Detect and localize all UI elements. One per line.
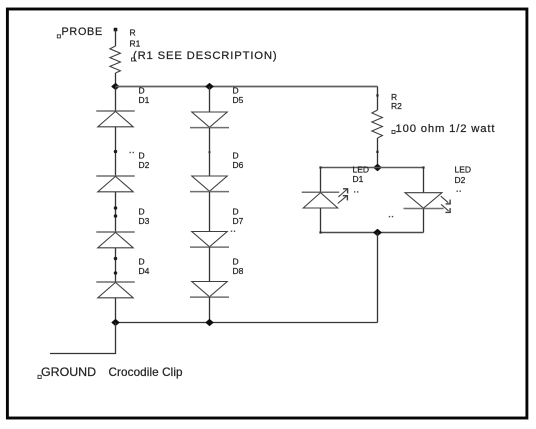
svg-text:D: D — [233, 207, 239, 217]
label R1 see description — [132, 50, 278, 62]
wire rail corner down to R2 — [376, 87, 378, 111]
wire LED bridge to bottom rail — [377, 233, 379, 323]
svg-text:Crocodile Clip: Crocodile Clip — [109, 366, 184, 379]
wire left branch down — [320, 168, 322, 193]
diode D8 — [190, 257, 244, 298]
wire D1 to D2 — [114, 127, 118, 176]
node LED top junction — [374, 164, 381, 170]
LED D2 — [389, 165, 471, 218]
node PROBE — [57, 26, 117, 38]
svg-text:D1: D1 — [139, 95, 150, 105]
wire right branch down — [423, 168, 425, 193]
svg-text:D: D — [139, 257, 145, 267]
wire R1 to node A — [115, 73, 117, 87]
node GROUND label — [38, 365, 183, 379]
wire LED top rail — [319, 166, 424, 168]
svg-text:(R1 SEE DESCRIPTION): (R1 SEE DESCRIPTION) — [133, 50, 277, 62]
node B junction — [206, 84, 213, 90]
diode D5 — [190, 86, 244, 128]
wire bottom rail — [116, 322, 378, 324]
wire ground lead — [50, 323, 116, 354]
wire LED D2 down — [423, 209, 425, 233]
svg-text:LED: LED — [353, 165, 370, 175]
node A junction — [112, 84, 119, 90]
svg-text:D4: D4 — [139, 266, 150, 276]
diode D3 — [96, 207, 149, 248]
wire left chain top — [115, 87, 117, 112]
svg-text:100 ohm 1/2 watt: 100 ohm 1/2 watt — [396, 123, 496, 135]
svg-text:D: D — [233, 257, 239, 267]
wire R2 to LED rail — [376, 138, 378, 168]
svg-text:D2: D2 — [139, 160, 150, 170]
svg-text:D7: D7 — [233, 216, 244, 226]
svg-text:D: D — [233, 151, 239, 161]
wire D8 to bottom rail — [209, 297, 211, 322]
wire D5 to D6 — [209, 128, 211, 176]
wire D6 to D7 — [209, 192, 211, 232]
svg-text:D: D — [139, 86, 145, 96]
svg-text:D1: D1 — [353, 174, 364, 184]
svg-text:D3: D3 — [139, 216, 150, 226]
svg-text:R: R — [130, 28, 136, 38]
node bottom left junction — [112, 320, 119, 326]
wire probe to R1 — [115, 30, 117, 46]
diode D4 — [96, 257, 149, 298]
label 100 ohm 1/2 watt — [392, 123, 495, 135]
LED D1 — [302, 165, 369, 209]
diode D7 — [190, 207, 244, 248]
node bottom mid junction — [206, 320, 213, 326]
svg-text:D: D — [139, 151, 145, 161]
diode D1 — [96, 86, 149, 127]
wire top rail — [116, 86, 378, 88]
wire D3 to D4 — [114, 248, 118, 282]
node LED bottom junction — [374, 229, 381, 235]
svg-text:D8: D8 — [233, 266, 244, 276]
wire D2 to D3 — [114, 192, 118, 232]
svg-text:GROUND: GROUND — [41, 365, 96, 379]
wire LED D1 down — [320, 208, 322, 233]
svg-text:LED: LED — [455, 165, 472, 175]
wire right chain top — [209, 87, 211, 113]
svg-text:D5: D5 — [233, 95, 244, 105]
resistor R2 — [372, 92, 402, 138]
wire D7 to D8 — [209, 247, 211, 281]
wire LED bottom rail — [319, 231, 423, 233]
wire D4 to bottom rail — [115, 298, 117, 323]
svg-text:R2: R2 — [391, 101, 402, 111]
svg-text:D2: D2 — [455, 175, 466, 185]
svg-text:PROBE: PROBE — [62, 26, 103, 38]
svg-text:D6: D6 — [233, 160, 244, 170]
svg-text:R1: R1 — [130, 39, 141, 49]
diode D6 — [190, 151, 244, 192]
svg-text:D: D — [139, 207, 145, 217]
diode D2 — [96, 151, 149, 192]
resistor R1 — [110, 28, 141, 74]
svg-text:D: D — [233, 86, 239, 96]
